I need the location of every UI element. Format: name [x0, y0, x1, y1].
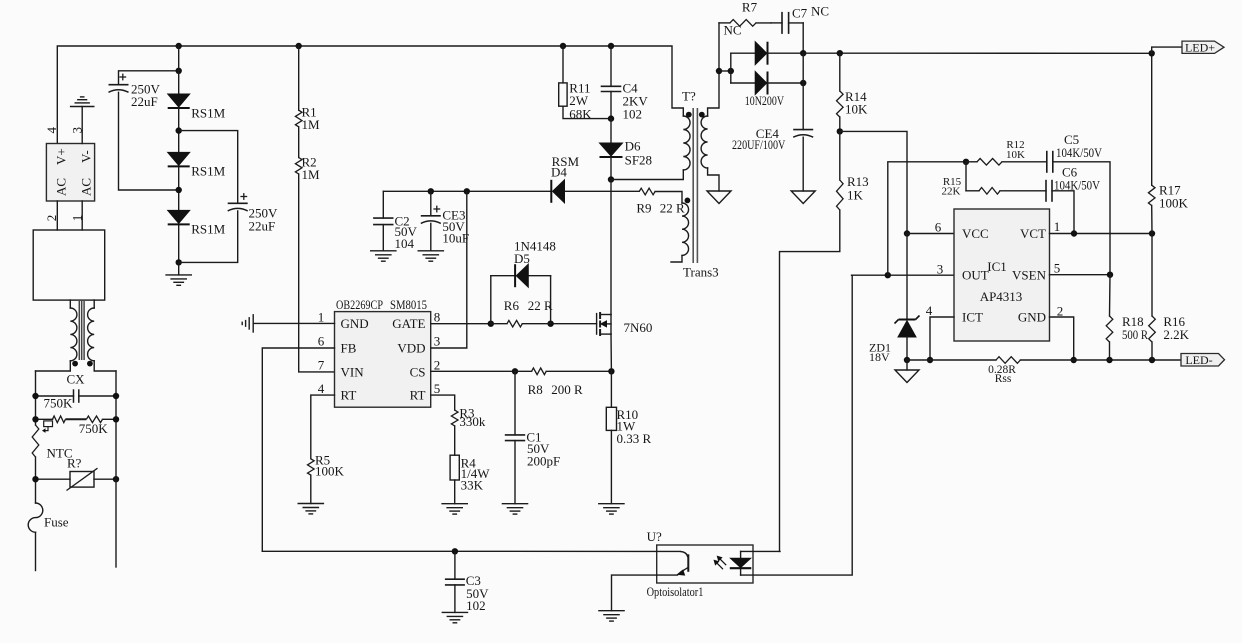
svg-text:104K/50V: 104K/50V [1056, 145, 1103, 160]
resistor R9 [639, 188, 655, 195]
label RS1M D3 [191, 222, 225, 237]
junction diode pair left [728, 68, 734, 74]
junction R16-rail [1149, 357, 1155, 363]
fuse [28, 503, 43, 532]
svg-text:22 R: 22 R [660, 201, 685, 216]
wire R16 top [1151, 234, 1153, 317]
wire OUT pin3 [852, 274, 954, 276]
capacitor CE4 [793, 130, 813, 138]
svg-text:Fuse: Fuse [44, 515, 69, 530]
svg-text:104: 104 [395, 236, 415, 251]
ground earth R4 [442, 504, 467, 514]
wire vdd row right [565, 190, 640, 192]
optocoupler U? box [657, 545, 753, 583]
capacitor C7 [771, 12, 803, 34]
ground earth C2 [371, 251, 396, 261]
resistor R4 [450, 455, 459, 480]
capacitor C2 [373, 218, 393, 225]
ground earth opto [599, 611, 624, 621]
label R8 [528, 382, 583, 397]
svg-text:4: 4 [44, 126, 59, 133]
junction ICT-rail [927, 357, 933, 363]
transformer aux winding [682, 203, 689, 255]
wire R13 to opto [780, 210, 840, 551]
wire gnd rail a [907, 359, 996, 361]
label R? [67, 456, 82, 471]
choke dot right [87, 361, 93, 367]
resistor NTC [32, 425, 39, 457]
wire R11 bottom [563, 106, 611, 118]
svg-text:18V: 18V [869, 350, 890, 364]
wire C2 top [382, 191, 384, 218]
wire R5 bottom [310, 475, 312, 503]
svg-text:V+: V+ [54, 148, 69, 165]
wire R11 top [562, 46, 564, 83]
svg-text:Trans3: Trans3 [683, 265, 719, 280]
wire GND pin2 [1050, 317, 1074, 360]
resistor 750K right [86, 416, 102, 423]
svg-text:SF28: SF28 [625, 153, 652, 168]
svg-text:5: 5 [434, 381, 441, 396]
pin text GND [341, 316, 369, 331]
svg-text:OB2269CP: OB2269CP [336, 297, 383, 312]
label D5 [514, 239, 556, 267]
svg-text:GND: GND [1018, 310, 1046, 325]
label R4 [461, 456, 491, 493]
label cap2 value [249, 206, 279, 234]
wire R4 bottom [454, 480, 456, 504]
diode RS1M D3 [168, 210, 190, 224]
pin text FB [341, 341, 357, 356]
transformer core [693, 108, 697, 263]
wire snubber left [718, 23, 720, 71]
junction rail-C4 [608, 43, 614, 49]
label cap1 value [131, 82, 161, 110]
wire AC pin2 down [56, 201, 58, 230]
wire right rail upper [115, 371, 117, 479]
junction VCC [904, 230, 910, 236]
wire D5 left [491, 276, 515, 324]
junction CX left [32, 393, 38, 399]
junction R14 top [837, 50, 843, 56]
label AP4313 [980, 289, 1023, 304]
label C3 [466, 573, 489, 613]
wire C6 to VCT [1052, 191, 1074, 234]
junction VDD riser [464, 188, 470, 194]
power ground ZD1 [895, 370, 919, 383]
wire C1 top [514, 371, 516, 435]
junction R12-R15 [963, 159, 969, 165]
wire sec-diodes stub [719, 70, 731, 72]
pin text OUT [962, 268, 989, 283]
junction drain-primary [608, 176, 614, 182]
label C6 [1054, 165, 1101, 193]
resistor R5 [308, 459, 315, 475]
wire AC pin1 down [81, 201, 83, 230]
pin text CS [410, 364, 426, 379]
pin number 2 ap [1057, 304, 1064, 319]
pin text VSEN [1012, 268, 1047, 283]
wire output rail [803, 52, 1151, 54]
svg-text:NC: NC [811, 4, 829, 19]
wire source [610, 334, 612, 371]
pin number 3 ap [937, 262, 944, 277]
ground earth R5 [298, 504, 323, 514]
wire 750K row [36, 418, 117, 420]
wire cap1 bottom [119, 92, 179, 190]
capacitor 250V 22uF upper [109, 74, 129, 93]
capacitor C4 [601, 86, 622, 91]
junction rail-R1 [296, 43, 302, 49]
junction CX right [113, 393, 119, 399]
label D6 [625, 139, 652, 168]
pin number 6 [318, 334, 325, 349]
svg-text:750K: 750K [79, 421, 109, 436]
ground earth chain [166, 275, 191, 285]
svg-text:VIN: VIN [341, 364, 365, 379]
svg-text:4: 4 [318, 381, 325, 396]
svg-text:7: 7 [318, 358, 325, 373]
label NTC [47, 446, 73, 461]
label T? [682, 89, 696, 104]
svg-text:VCC: VCC [962, 226, 989, 241]
label R11 [569, 81, 592, 122]
svg-text:LED+: LED+ [1185, 40, 1215, 54]
wire LED+ stub [1152, 47, 1182, 53]
junction CS-C1 [512, 368, 518, 374]
label OB2269CP SM8015 [336, 297, 427, 312]
wire R3-R4 [454, 426, 456, 455]
svg-text:D6: D6 [625, 139, 641, 154]
pin number 5 [434, 381, 441, 396]
label CE4 [732, 126, 786, 152]
ground earth R10 [599, 504, 624, 514]
svg-text:5: 5 [1054, 261, 1061, 276]
svg-text:10K: 10K [1006, 149, 1025, 161]
diode D5 1N4148 [515, 264, 528, 287]
svg-text:8: 8 [434, 310, 441, 325]
wire CE4 top [802, 83, 804, 130]
wire CS pin2 [431, 370, 515, 372]
wire R16 bottom [1151, 342, 1153, 360]
ground earth C3 [442, 612, 467, 622]
wire ZD1 bottom [906, 337, 908, 360]
capacitor C5 [1047, 151, 1053, 173]
junction chain cap2+ [176, 127, 182, 133]
pin 3 label [70, 127, 85, 134]
wire CX row [36, 395, 117, 397]
svg-text:200 R: 200 R [551, 382, 583, 397]
svg-text:NC: NC [723, 23, 741, 38]
label 7N60 [624, 320, 653, 335]
wire D6 cathode [610, 158, 612, 180]
transistor Q1 7N60 [597, 312, 611, 336]
wire secondary top [708, 71, 719, 116]
svg-text:AC: AC [79, 178, 94, 196]
wire gnd rail b [1020, 359, 1181, 361]
resistor R16 [1149, 316, 1156, 342]
junction rail-R11 [560, 43, 566, 49]
label Trans3 [683, 265, 719, 280]
pin number 5 ap [1054, 261, 1061, 276]
svg-text:10uF: 10uF [442, 231, 469, 246]
label IC1 [987, 259, 1007, 274]
svg-text:U?: U? [647, 529, 662, 544]
label 10N200V [745, 93, 785, 108]
wire left rail bottom [35, 532, 37, 570]
label R1 [302, 105, 321, 133]
capacitor 250V 22uF lower [228, 193, 248, 211]
junction R11-C4-D6 [608, 115, 614, 121]
label Optoisolator1 [647, 584, 704, 599]
wire C1 bottom [514, 441, 516, 504]
capacitor C3 [445, 579, 465, 585]
svg-text:33K: 33K [461, 478, 484, 493]
wire D7 anode [731, 52, 755, 54]
svg-text:220UF/100V: 220UF/100V [732, 137, 786, 152]
IC IC1 AP4313 [954, 209, 1050, 341]
varistor R? [67, 468, 98, 490]
wire VSEN pin5 [1050, 274, 1111, 276]
resistor R12 [977, 159, 1002, 166]
junction OUT-R12 [885, 272, 891, 278]
wire C4 top [610, 46, 612, 86]
svg-text:ICT: ICT [962, 310, 983, 325]
resistor 750K left [53, 416, 66, 423]
svg-text:C7: C7 [792, 6, 808, 21]
wire FB pin6 [262, 348, 334, 551]
junction gate net left [488, 321, 494, 327]
resistor Rss [996, 357, 1020, 364]
wire GATE pin8 [431, 323, 597, 325]
wire gnd stub [906, 360, 908, 370]
pin number 3 [434, 334, 441, 349]
wire R12 leads [966, 161, 1047, 163]
label 750K upper [44, 396, 74, 411]
pin 4 label [44, 126, 59, 133]
svg-text:1K: 1K [847, 188, 864, 203]
junction CE3 top [428, 188, 434, 194]
wire R14 top lead [839, 53, 841, 91]
resistor R3 [451, 410, 458, 426]
svg-text:R8: R8 [528, 382, 543, 397]
opto phototransistor [657, 551, 689, 575]
svg-text:102: 102 [466, 598, 486, 613]
junction chain cap1+ [176, 68, 182, 74]
resistor R11 [559, 83, 567, 106]
svg-text:3: 3 [937, 262, 944, 277]
diode D6 SF28 [600, 143, 623, 157]
junction LED+ node [1149, 50, 1155, 56]
wire C4 bottom [610, 92, 612, 119]
svg-text:10K: 10K [845, 102, 868, 117]
wire C2 bottom [382, 225, 384, 251]
resistor R10 [606, 407, 616, 430]
wire R1-R2 [298, 127, 300, 158]
label 750K lower [79, 421, 109, 436]
svg-text:102: 102 [623, 107, 643, 122]
svg-text:1M: 1M [302, 167, 321, 182]
junction 750K left [32, 416, 38, 422]
wire GND pin1 [253, 322, 334, 324]
pin text VDD [397, 341, 425, 356]
svg-text:100K: 100K [1159, 196, 1189, 211]
pin number 4 ap [926, 303, 933, 318]
power ground CE4 [791, 191, 815, 204]
svg-text:GATE: GATE [392, 316, 425, 331]
pin text VIN [341, 364, 365, 379]
pin text VCC [962, 226, 989, 241]
label R7 [723, 0, 757, 38]
port LED- [1181, 353, 1225, 367]
junction VSEN-R18 [1107, 272, 1113, 278]
wire ZD1 top [906, 234, 908, 320]
opto LED [730, 551, 752, 575]
diode RS1M D1 [168, 94, 190, 108]
ground earth pin1 [242, 315, 253, 332]
svg-text:6: 6 [935, 220, 942, 235]
opto light arrows [714, 556, 726, 569]
choke core [79, 301, 84, 360]
junction rect out top [800, 50, 806, 56]
svg-text:4: 4 [926, 303, 933, 318]
pin number 1 [318, 310, 325, 325]
junction sec top [716, 68, 722, 74]
junction gnd rail left [904, 357, 910, 363]
port LED+ [1182, 40, 1224, 54]
diode D7 10N200V [755, 42, 767, 65]
junction chain cap1- [176, 187, 182, 193]
label R12 [1006, 139, 1025, 161]
svg-text:1M: 1M [302, 117, 321, 132]
label D4 [551, 154, 580, 180]
label R9 [636, 201, 685, 216]
resistor R13 [837, 180, 844, 210]
label CE3 [442, 208, 469, 246]
svg-text:0.33 R: 0.33 R [617, 431, 652, 446]
diode D4 RSM [551, 180, 564, 203]
wire RT pin5 [431, 395, 455, 410]
wire opto anode [741, 550, 780, 552]
label RS1M D2 [191, 164, 225, 179]
svg-text:IC1: IC1 [987, 259, 1007, 274]
wire C3 top [454, 551, 456, 579]
wire R1 top [298, 46, 300, 110]
wire primary bottom [611, 170, 683, 180]
svg-text:2: 2 [434, 358, 441, 373]
wire aux top [655, 192, 682, 204]
label C1 [526, 430, 560, 469]
junction rail-RS1M chain [176, 43, 182, 49]
label C2 [395, 214, 418, 251]
wire left rail mid [35, 457, 37, 503]
label R10 [617, 407, 652, 446]
wire cap2 bottom [179, 211, 238, 263]
ground earth C1 [502, 504, 527, 514]
label R15 [942, 176, 962, 198]
diode RS1M D2 [168, 152, 190, 166]
label R3 [459, 406, 486, 430]
svg-text:7N60: 7N60 [624, 320, 653, 335]
svg-text:200pF: 200pF [527, 454, 560, 469]
wire D7 cathode [768, 52, 804, 54]
svg-text:10N200V: 10N200V [745, 93, 785, 108]
pin 1 label [70, 215, 85, 222]
label R2 [302, 155, 321, 183]
junction VCT-C6 [1071, 230, 1077, 236]
svg-text:750K: 750K [44, 396, 74, 411]
pin number 7 [318, 358, 325, 373]
svg-text:RS1M: RS1M [191, 164, 225, 179]
pin text RT right [410, 388, 426, 403]
label U? [647, 529, 662, 544]
ground earth CE3 [418, 251, 443, 261]
junction VCT-R17 [1149, 230, 1155, 236]
wire CE3 top [430, 191, 432, 216]
resistor R2 [295, 158, 302, 175]
label C4 [623, 81, 649, 122]
label R13 [847, 174, 869, 203]
label Fuse [44, 515, 69, 530]
svg-text:2: 2 [1057, 304, 1064, 319]
wire opto cathode [741, 275, 853, 575]
wire CE4 bottom [802, 137, 804, 191]
svg-text:R6: R6 [504, 298, 520, 313]
label R6 [504, 298, 553, 313]
resistor R14 [837, 91, 844, 117]
svg-text:OUT: OUT [962, 268, 989, 283]
pin number 2 [434, 358, 441, 373]
pin number 6 ap [935, 220, 942, 235]
power ground secondary [707, 191, 731, 204]
choke winding left [36, 300, 77, 371]
svg-text:500 R: 500 R [1122, 327, 1148, 342]
svg-text:GND: GND [341, 316, 369, 331]
resistor R17 [1148, 185, 1155, 205]
wire R13 top lead [839, 131, 841, 180]
wire RT pin4 [311, 395, 335, 459]
svg-text:330k: 330k [459, 414, 486, 429]
wire left rail upper [35, 371, 37, 425]
wire rect out [802, 53, 804, 83]
wire top rail [57, 46, 683, 144]
svg-text:VDD: VDD [397, 341, 425, 356]
primary polarity dot [686, 112, 692, 118]
wire R18 bottom [1109, 342, 1111, 360]
wire chain to earth [178, 262, 180, 275]
choke dot left [72, 361, 78, 367]
capacitor C6 [1046, 180, 1052, 202]
svg-text:22uF: 22uF [131, 94, 158, 109]
wire VCC pin6 [907, 233, 954, 235]
wire D5 right [528, 276, 551, 324]
junction source-R10 [608, 368, 614, 374]
svg-text:RT: RT [341, 388, 357, 403]
junction rect out bottom [800, 80, 806, 86]
pin text GND2 [1018, 310, 1046, 325]
wire chain seg1 [178, 46, 180, 94]
wire D8 cathode [768, 82, 804, 84]
capacitor CX [74, 389, 79, 403]
svg-text:R9: R9 [636, 201, 651, 216]
aux polarity dot [685, 198, 691, 204]
transformer secondary winding [701, 116, 707, 168]
wire vcc riser [840, 131, 907, 233]
svg-text:LED-: LED- [1185, 353, 1212, 367]
label ZD1 [869, 341, 891, 365]
resistor R1 [295, 110, 302, 127]
wire D8 anode [731, 82, 755, 84]
